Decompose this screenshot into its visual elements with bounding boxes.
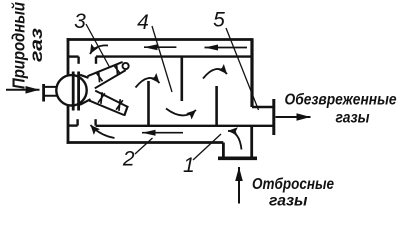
lining stub — [77, 57, 79, 64]
svg-text:газ: газ — [26, 28, 46, 62]
weld tick X4 — [116, 99, 123, 111]
lower nozzle pipe — [89, 91, 127, 115]
lower nozzle tip cap — [124, 106, 128, 116]
inner top lining (left piece) — [67, 55, 79, 57]
svg-text:Обезвреженные: Обезвреженные — [285, 92, 397, 109]
flow arrow top channel right — [205, 47, 248, 49]
weld tick X2 — [114, 64, 121, 76]
svg-text:3: 3 — [74, 10, 86, 33]
leader 5 — [226, 28, 259, 110]
leader 2 — [135, 138, 153, 154]
leader 4 — [152, 26, 172, 92]
arrow: natural gas inlet — [6, 89, 40, 91]
baffle B — [181, 57, 184, 101]
inlet duct right wall — [250, 127, 253, 157]
svg-text:5: 5 — [213, 9, 225, 32]
casing bottom wall — [67, 141, 224, 144]
arrow: outlet gases — [276, 116, 311, 118]
svg-text:газы: газы — [336, 110, 370, 127]
casing right wall — [250, 38, 253, 107]
baffle C — [215, 86, 218, 126]
casing top wall — [67, 38, 253, 41]
callout 3 — [74, 10, 86, 33]
upper nozzle tip ring — [123, 63, 129, 69]
svg-text:1: 1 — [183, 154, 195, 177]
burner flange discs — [73, 72, 78, 111]
lining stub — [94, 119, 96, 125]
callout 2 — [122, 147, 135, 170]
outlet duct top — [252, 106, 274, 109]
svg-text:Отбросные: Отбросные — [252, 176, 334, 193]
upper nozzle pipe — [88, 62, 126, 88]
leader 3 — [86, 24, 110, 68]
flow arrow top channel left — [144, 46, 176, 48]
svg-text:газы: газы — [269, 193, 308, 210]
burner body taper top — [80, 75, 89, 78]
burner body taper bottom — [80, 99, 91, 105]
weld tick X3 — [98, 92, 105, 104]
curved arrow: up through bottom gap — [91, 125, 115, 138]
inner top lining (right piece) — [96, 55, 251, 57]
arrow: waste gas inlet — [238, 167, 240, 204]
label: natural gas (rotated) — [9, 2, 47, 89]
label: cleaned gases — [285, 92, 397, 127]
burner inlet pipe — [45, 87, 59, 96]
baffle A — [147, 81, 150, 126]
svg-text:2: 2 — [122, 147, 135, 170]
outlet flange — [272, 99, 275, 135]
inner bottom lining (right piece, continues as outlet duct bottom) — [96, 125, 274, 127]
curved arrow: over baffle A — [136, 78, 160, 88]
casing left wall upper — [67, 38, 70, 74]
burner inlet flange — [42, 84, 45, 102]
curved arrow: inlet elbow — [228, 131, 242, 150]
callout 5 — [213, 9, 225, 32]
curved arrow: over baffle C — [203, 69, 227, 79]
lining stub — [95, 57, 97, 64]
svg-text:4: 4 — [137, 11, 149, 34]
inner bottom lining (left piece) — [67, 124, 78, 126]
curved arrow: down through top gap — [90, 45, 108, 54]
label: waste gases — [252, 176, 334, 210]
callout 1 — [183, 154, 195, 177]
inlet duct left wall — [222, 143, 225, 157]
callout 4 — [137, 11, 149, 34]
weld tick X1 — [96, 71, 103, 83]
inlet flange — [218, 157, 257, 161]
leader 1 — [193, 134, 221, 160]
burner sphere — [56, 75, 86, 105]
curved arrow: under baffle B — [166, 109, 196, 116]
lining stub — [76, 119, 78, 125]
casing left wall lower — [67, 106, 70, 144]
flow arrow bottom channel — [142, 132, 183, 134]
